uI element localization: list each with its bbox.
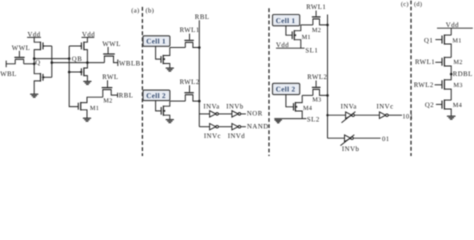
- svg-text:Cell 1: Cell 1: [276, 17, 296, 25]
- label INVa (c): [341, 103, 357, 110]
- label NOR: [247, 110, 263, 117]
- wire Cell2 to N4 gate: [156, 101, 162, 111]
- svg-text:NOR: NOR: [247, 110, 263, 117]
- label INVb (b): [226, 103, 244, 110]
- WBL terminal tick: [5, 61, 7, 68]
- left inverter gate line: [51, 46, 53, 77]
- pass transistor M3 (c): [312, 81, 328, 96]
- label NAND: [247, 123, 269, 130]
- pass transistor WWL-left: [14, 51, 24, 64]
- label RWL1 (c): [306, 4, 326, 11]
- transistor M4 (c): [294, 95, 303, 118]
- wire Cell1 to M1 gate (c): [286, 26, 292, 35]
- wire RBL bend to INVc: [199, 126, 209, 128]
- svg-text:QB: QB: [72, 56, 82, 63]
- svg-text:M2: M2: [103, 97, 112, 104]
- label Vdd (left): [28, 31, 41, 38]
- right inverter gate line down to M1: [69, 46, 78, 107]
- ground N3 source: [166, 68, 174, 71]
- label RWL2 (b): [180, 79, 200, 86]
- transistor M1 read driver: [78, 97, 103, 118]
- pass transistor M2 (c): [312, 11, 328, 25]
- label M1 (d): [452, 37, 461, 44]
- label Vdd (right): [82, 31, 95, 38]
- cell block Cell 2 (b): [143, 90, 170, 101]
- label M3 (c): [312, 96, 321, 103]
- transistor M4 (d): [436, 100, 451, 116]
- label SL1: [305, 48, 318, 55]
- svg-text:M2: M2: [453, 59, 462, 66]
- wire Vdd rail (d): [437, 27, 473, 29]
- junction dot right gate line N2 tap: [68, 71, 71, 74]
- svg-text:(a): (a): [131, 8, 139, 15]
- WBLB terminal tick: [117, 60, 119, 67]
- label Q: [35, 59, 40, 66]
- panel label (a): [131, 8, 139, 15]
- Vdd right supply wire: [82, 36, 95, 38]
- junction dot SL cell2: [326, 94, 329, 97]
- pmos P2 right inverter: [69, 42, 84, 51]
- label Q2: [425, 102, 434, 109]
- transistor M1 (d): [435, 35, 451, 58]
- svg-text:INVa: INVa: [203, 103, 219, 110]
- wire QB to WWL right pass: [87, 62, 104, 64]
- wire INVc to output 101: [388, 114, 402, 116]
- Vdd left supply wire: [27, 36, 41, 38]
- wire N3 drain to RWL1 pass: [170, 47, 186, 49]
- svg-text:WWL: WWL: [12, 45, 30, 52]
- ground SL2: [275, 120, 282, 123]
- label RWL1 (b): [180, 27, 200, 34]
- svg-text:RBL: RBL: [119, 93, 134, 100]
- label RDBL: [453, 71, 473, 78]
- ground left inverter: [30, 94, 38, 97]
- svg-text:M2: M2: [312, 27, 321, 34]
- wire N4 drain to RWL2 pass: [170, 100, 186, 102]
- svg-text:M1: M1: [452, 37, 461, 44]
- svg-text:WBL: WBL: [0, 71, 17, 78]
- wire N2 source to ground: [84, 76, 88, 82]
- inverter INVc (b): [210, 124, 219, 130]
- label RWL1 (d): [415, 59, 435, 66]
- label WWL (left): [12, 45, 30, 52]
- svg-text:(d): (d): [414, 1, 422, 8]
- label Vdd (c): [276, 42, 289, 49]
- svg-text:NAND: NAND: [247, 123, 269, 130]
- svg-text:M1: M1: [302, 34, 311, 41]
- svg-text:RWL: RWL: [102, 74, 118, 81]
- wire INVb to NOR: [241, 113, 246, 115]
- wire INVd to NAND: [241, 126, 246, 128]
- pass transistor WWL-right: [103, 47, 118, 63]
- svg-text:Q: Q: [35, 59, 40, 66]
- label INVb (c): [342, 146, 360, 153]
- inverter INVa (c) crossed: [342, 112, 356, 123]
- svg-text:SL2: SL2: [307, 117, 320, 124]
- svg-text:SL1: SL1: [305, 48, 318, 55]
- svg-text:INVb: INVb: [342, 146, 360, 153]
- junction dot SL cell1: [326, 24, 329, 27]
- wire P2 drain down to QB: [84, 50, 88, 68]
- label Vdd (d): [446, 22, 459, 29]
- node A wire Q to right gate: [34, 58, 69, 60]
- label M2: [103, 97, 112, 104]
- svg-text:INVc: INVc: [204, 133, 221, 140]
- label M3 (d): [453, 82, 462, 89]
- label INVc (b): [204, 133, 221, 140]
- junction dot SL branch: [326, 114, 328, 116]
- svg-text:Q2: Q2: [425, 102, 434, 109]
- wire Vdd to PMOS P1 source: [34, 37, 40, 42]
- label M4 (c): [303, 105, 313, 112]
- cell block Cell 1 (b): [143, 36, 170, 47]
- transistor M2 (d): [435, 57, 451, 80]
- junction dot QB node: [86, 61, 89, 64]
- inverter INVa (b): [210, 111, 219, 117]
- label M1: [90, 105, 99, 112]
- inverter INVb (b): [232, 111, 241, 117]
- label RBL: [119, 93, 134, 100]
- panel label (d): [414, 1, 422, 8]
- wire Cell1 to N3 gate: [156, 46, 161, 59]
- label M2 (d): [453, 59, 462, 66]
- inverter INVd (b): [232, 124, 241, 130]
- wire INVa to INVb: [218, 113, 232, 115]
- label M4 (d): [453, 102, 463, 109]
- transistor M3 (d): [435, 79, 452, 100]
- node Q junction dot: [33, 63, 36, 66]
- nmos N2 right inverter: [69, 67, 84, 76]
- svg-text:Cell 1: Cell 1: [146, 38, 166, 46]
- wire RBL vertical: [198, 20, 200, 127]
- wire WBL to pass gate: [6, 60, 15, 64]
- label QB: [72, 56, 82, 63]
- label M2 (c): [312, 27, 321, 34]
- transistor M1 (c): [292, 25, 301, 48]
- svg-text:Cell 2: Cell 2: [276, 86, 296, 94]
- wire SL to INVa (c): [328, 114, 346, 116]
- wire Vdd to M1 (d): [450, 28, 452, 35]
- svg-text:WWL: WWL: [102, 41, 120, 48]
- svg-text:Cell 2: Cell 2: [146, 92, 166, 100]
- ground (d): [447, 116, 456, 119]
- junction dot RBL cell2: [198, 100, 201, 103]
- transistor M2 read access: [102, 80, 118, 97]
- label M1 (c): [302, 34, 311, 41]
- nmos N1 left inverter: [41, 73, 52, 82]
- wire INVc to INVd: [218, 126, 232, 128]
- pmos P1 left inverter: [41, 42, 52, 51]
- label RWL2 (c): [307, 74, 327, 81]
- svg-text:INVd: INVd: [228, 133, 246, 140]
- wire SL vertical: [327, 25, 329, 138]
- svg-text:INVc: INVc: [377, 103, 394, 110]
- pass transistor RWL2 (b): [184, 85, 199, 101]
- junction dot RDBL: [450, 73, 453, 76]
- separator dashed line a|b: [141, 7, 143, 156]
- svg-text:INVb: INVb: [226, 103, 244, 110]
- svg-text:RWL1: RWL1: [415, 59, 435, 66]
- separator dashed line c|d: [410, 1, 412, 157]
- wire P1 drain down through Q to N1: [34, 50, 40, 74]
- svg-text:01: 01: [382, 136, 389, 143]
- cell block Cell 1 (c): [273, 15, 300, 26]
- svg-text:Q1: Q1: [424, 37, 433, 44]
- svg-text:M4: M4: [453, 102, 463, 109]
- wire SL bend to INVb (c): [328, 137, 345, 139]
- label RWL: [102, 74, 118, 81]
- wire M1 drain to RWL1 pass (c): [301, 24, 313, 26]
- svg-text:RWL1: RWL1: [306, 4, 326, 11]
- transistor N4 cell2 driver: [161, 101, 170, 119]
- wire Cell2 to M4 gate (c): [286, 95, 294, 107]
- label WBL: [0, 71, 17, 78]
- junction dot RBL cell1: [198, 46, 201, 49]
- RBL terminal tick: [117, 93, 119, 98]
- junction dot left gate: [51, 61, 54, 64]
- svg-text:RWL2: RWL2: [414, 82, 434, 89]
- label 101: [402, 114, 413, 121]
- svg-text:(b): (b): [146, 8, 155, 15]
- ground right inverter: [83, 81, 91, 84]
- label WBLB: [119, 61, 141, 68]
- svg-text:M1: M1: [90, 105, 99, 112]
- pass transistor RWL1 (b): [184, 34, 199, 48]
- wire RBL branch to INVa: [199, 113, 209, 115]
- svg-text:RWL2: RWL2: [307, 74, 327, 81]
- panel label (c): [401, 1, 409, 8]
- svg-text:M3: M3: [453, 82, 462, 89]
- svg-text:RDBL: RDBL: [453, 71, 473, 78]
- label Q1: [424, 37, 433, 44]
- panel label (b): [146, 8, 155, 15]
- wire Vdd to PMOS P2 source: [84, 37, 88, 42]
- junction dot right gate tap: [68, 57, 71, 60]
- label INVa (b): [203, 103, 219, 110]
- node B wire left gate to QB: [52, 62, 88, 64]
- stub above SL junction: [327, 15, 329, 25]
- label RBL (b): [195, 14, 210, 21]
- label 01: [382, 136, 389, 143]
- svg-text:RWL2: RWL2: [180, 79, 200, 86]
- label INVd (b): [228, 133, 246, 140]
- transistor N3 cell1 driver: [161, 48, 170, 68]
- svg-text:M3: M3: [312, 96, 321, 103]
- wire M4 drain to RWL2 pass (c): [302, 94, 313, 96]
- svg-text:101: 101: [402, 114, 413, 121]
- svg-text:RWL1: RWL1: [180, 27, 200, 34]
- label SL2: [307, 117, 320, 124]
- label INVc (c): [377, 103, 394, 110]
- svg-text:M4: M4: [303, 105, 313, 112]
- wire INVa to INVc (c): [354, 114, 379, 116]
- svg-text:WBLB: WBLB: [119, 61, 141, 68]
- wire SL2: [274, 118, 306, 120]
- wire Vdd SL1: [276, 47, 305, 49]
- wire pass to node Q: [24, 63, 35, 65]
- label RWL2 (d): [414, 82, 434, 89]
- wire N1 source to ground: [34, 81, 40, 94]
- svg-text:RBL: RBL: [195, 14, 210, 21]
- ground M1 source: [83, 118, 91, 121]
- junction dot Q tap: [33, 57, 36, 60]
- svg-text:INVa: INVa: [341, 103, 357, 110]
- svg-text:(c): (c): [401, 1, 409, 8]
- wire INVb to output 01: [353, 137, 380, 139]
- cell block Cell 2 (c): [273, 83, 300, 94]
- inverter INVb (c) crossed: [340, 135, 354, 146]
- inverter INVc (c): [379, 112, 388, 119]
- ground N4 source: [166, 120, 174, 123]
- label WWL (right): [102, 41, 120, 48]
- separator dashed line b|c: [268, 8, 270, 156]
